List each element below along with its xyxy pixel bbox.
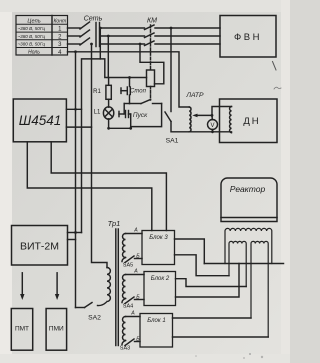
svg-text:SA4: SA4 [123,304,133,310]
svg-text:SA1: SA1 [166,138,179,145]
reactor inner winding 1 [229,241,246,286]
box FVN [220,16,276,58]
svg-text:SA2: SA2 [88,315,101,322]
KM linkage dashed to aux contact [150,87,152,101]
wire wire1 down-jog [100,28,146,78]
svg-text:ФВН: ФВН [234,32,262,43]
svg-text:ВИТ-2М: ВИТ-2М [20,241,59,253]
wire phase 3 to FVN [155,43,220,45]
box Блок1 [140,314,173,348]
table text [18,18,67,56]
Tr1 secondary 3 [126,316,141,318]
wire Б stub to Блок2 [135,299,145,301]
transformer Tr1 primary coil [107,268,110,302]
svg-text:Блок 1: Блок 1 [147,318,165,324]
wire H0 reactor bus [204,263,283,265]
wire Блок1 W2 [173,336,269,338]
box ПМТ [11,309,32,351]
svg-text:Тр1: Тр1 [108,219,121,228]
node A / stop feed [128,76,131,79]
switch SA1 blade [165,112,171,122]
svg-text:ПМТ: ПМТ [15,326,29,333]
contact KM aux (self-hold) [130,103,142,105]
wire Блок1 W1 [173,317,252,319]
wire phase 1 to KM [100,27,145,29]
svg-text:R1: R1 [93,89,101,95]
svg-text:SA5: SA5 [123,263,133,269]
switch Сеть blade 1 [80,22,90,29]
stray pencil marks [273,62,277,71]
switch SA3 blade [125,339,134,346]
wire phase 1 (row1 to switch) [68,27,81,29]
wire R1 to L1 [108,99,110,107]
arrow ВИТ to ПМТ [21,273,23,296]
wire phase 2 to KM [100,35,145,37]
svg-text:Пуск: Пуск [133,112,148,119]
switch SA2 [76,307,85,309]
autotransformer LATR coil [189,107,191,132]
contactor KM blade 3 [145,41,155,46]
node neutral-branch [74,50,77,53]
DN primary coil [230,107,232,133]
node wire2 drop [107,35,110,38]
svg-text:Ш4541: Ш4541 [19,113,61,128]
reactor outer winding [225,228,272,263]
contactor KM blade 2 [145,33,155,38]
pushbutton Пуск (NO) [124,103,129,105]
wire Б stub to Блок1 [135,341,141,343]
box Реактор rounded [221,178,277,222]
wire SA1 to LATR bottom bus [171,122,232,132]
svg-text:Блок 2: Блок 2 [151,276,170,282]
wire ВИТ lead 2 [68,239,76,241]
svg-text:Конт: Конт [53,18,66,24]
wire phase 3 [68,43,81,45]
contactor coil KM [147,70,155,87]
svg-text:L1: L1 [94,110,101,116]
svg-text:~380 В, 50Гц: ~380 В, 50Гц [18,34,46,39]
neutral wire row4 [68,52,190,107]
svg-text:~380 В, 50Гц: ~380 В, 50Гц [18,42,46,47]
svg-text:ЛАТР: ЛАТР [185,92,204,99]
winding Tr1 secondary 2 [123,275,126,299]
box Блок2 [144,272,176,306]
svg-text:~380 В, 50Гц: ~380 В, 50Гц [18,26,46,31]
wire phase 3 to KM [100,43,145,45]
wire C: wire3 down to Tr1 primary [92,44,108,268]
svg-text:ПМИ: ПМИ [49,326,64,333]
node wire1 to SA1 [170,27,173,30]
switch Сеть blade 2 [80,30,90,37]
wire KM coil feed from wire3 [139,43,142,46]
wire Ш4541 bottom lead 2 [51,142,166,231]
connector table X1 [16,16,68,56]
arrow ВИТ to ПМИ [56,273,58,296]
svg-text:Сеть: Сеть [84,14,103,23]
reactor inner winding 2 [251,241,268,337]
wire wire2 down [107,36,109,78]
box ВИТ-2М [12,226,68,266]
svg-text:Цепь: Цепь [27,18,40,24]
pushbutton Стоп (NC) [129,78,131,87]
switch Сеть blade 3 [80,38,90,45]
wire Стоп to node B [129,95,131,104]
svg-text:КМ: КМ [147,18,157,25]
svg-text:ДН: ДН [243,116,260,127]
wire Блок3 W1 [175,239,205,264]
box Ш4541 [13,99,66,142]
wire left branch to B [82,59,101,233]
wire neutral A down [75,52,77,308]
svg-text:Ноль: Ноль [28,49,40,55]
box DN [220,99,278,143]
wire Ш4541 lead right bottom [66,126,91,128]
transformer Tr1 core [115,229,117,346]
wire Б stub to Блок3 [135,258,143,260]
wire Блок2 W1 [176,279,247,287]
wire phase 2 [68,35,81,37]
wire phase1 down to SA1 [170,28,172,112]
wire Блок2 W2 [176,264,240,298]
winding Tr1 secondary 3 [123,317,126,341]
wire Блок3 W2 [175,255,230,276]
wire node to R1 [108,78,110,86]
svg-text:V: V [210,123,214,129]
svg-text:А: А [133,269,138,275]
winding Tr1 secondary 1 [123,234,126,258]
voltmeter V [211,115,213,119]
svg-text:А: А [133,228,138,234]
wire Ш4541 lead right top [66,108,81,110]
wire wiper to DN top [212,107,232,116]
resistor R1 [106,85,111,99]
wire L1 to rail [108,119,110,129]
box ПМИ [46,309,67,351]
LATR wiper arrow [197,114,213,116]
Tr1 secondary 1 [126,233,143,235]
wire ВИТ lead 1 [68,232,82,234]
node wire3 drop [90,43,93,46]
box Блок3 [142,231,175,265]
switch SA4 blade [125,297,134,304]
switch SA5 blade [125,256,134,263]
switch Сеть gang bars [95,23,97,47]
svg-text:SA3: SA3 [120,346,130,352]
svg-text:Реактор: Реактор [230,184,266,194]
wire phase 2 to FVN [155,35,220,37]
contactor KM blade 1 [145,25,155,30]
svg-text:А: А [130,311,135,317]
wire Tr1 primary bottom tail [98,303,107,306]
svg-text:Стоп: Стоп [130,89,147,95]
lamp L1 [103,107,113,119]
node wire1 drop [99,27,102,30]
control bottom rail [109,127,131,129]
svg-text:Блок 3: Блок 3 [149,235,168,241]
wire phase 1 to FVN [155,27,220,29]
wire Ш4541 bottom lead 1 [27,142,152,231]
Tr1 secondary 2 [126,274,145,276]
KM linkage dashed [150,25,152,70]
